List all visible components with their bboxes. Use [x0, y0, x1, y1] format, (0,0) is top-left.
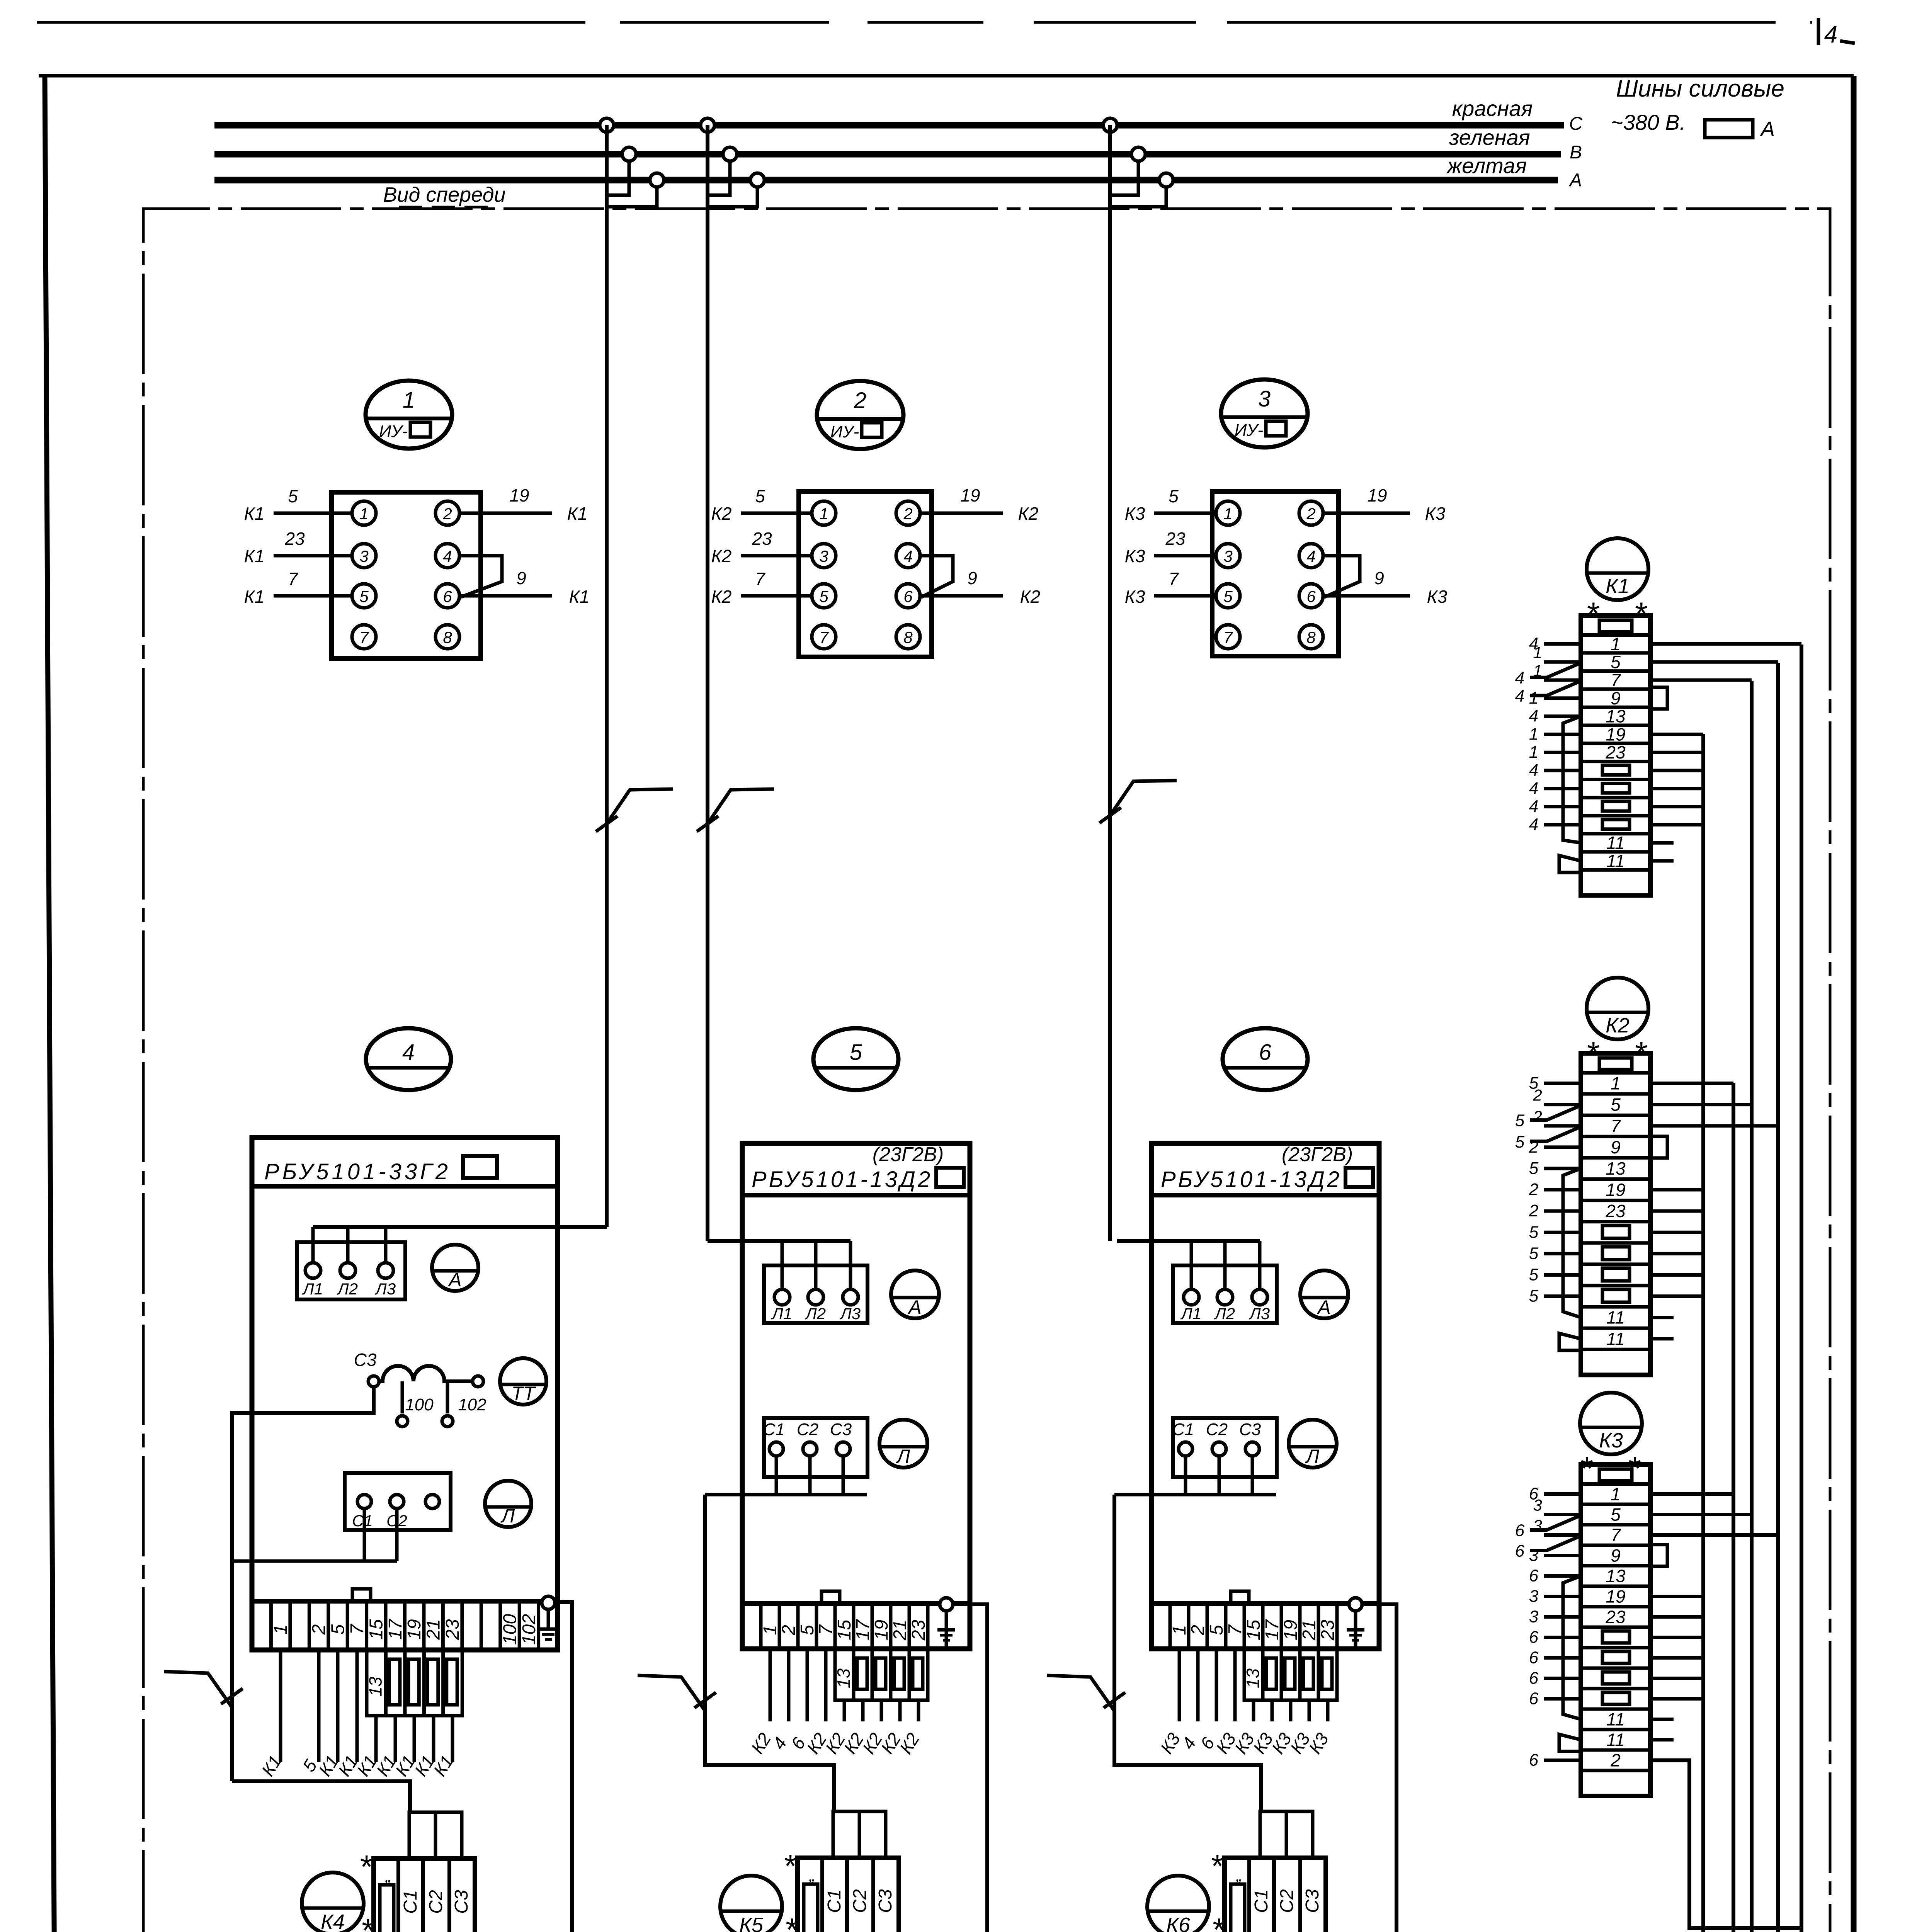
svg-text:9: 9	[1611, 1546, 1621, 1566]
svg-text:3: 3	[819, 547, 828, 565]
svg-text:7: 7	[819, 628, 829, 646]
svg-text:2: 2	[1529, 1180, 1538, 1199]
right wires of К2	[1650, 1082, 1733, 1085]
svg-text:100: 100	[405, 1395, 434, 1414]
svg-text:4: 4	[443, 547, 452, 565]
wire to K box area	[1215, 1649, 1218, 1721]
svg-text:Л3: Л3	[1249, 1304, 1270, 1323]
fuse row panel6	[1244, 1649, 1263, 1700]
fuse link	[1322, 1658, 1332, 1689]
svg-text:5: 5	[1223, 587, 1233, 605]
wire to K box area	[1326, 1700, 1330, 1721]
connection box К6 box	[1225, 1858, 1326, 1932]
second cable	[1530, 1537, 1579, 1551]
svg-text:К1: К1	[244, 503, 265, 524]
svg-text:5: 5	[755, 486, 765, 506]
pin 8	[896, 625, 920, 649]
svg-text:С3: С3	[830, 1420, 852, 1439]
svg-text:К2: К2	[1606, 1014, 1630, 1037]
svg-text:21: 21	[424, 1619, 444, 1640]
vertical bus V1	[1701, 734, 1705, 1932]
svg-text:4: 4	[1306, 547, 1315, 565]
svg-text:2: 2	[1610, 1750, 1621, 1770]
drop wire column 3	[1108, 125, 1112, 1241]
svg-text:13: 13	[1606, 706, 1626, 726]
wire to K4 area	[336, 1650, 340, 1762]
svg-text:6: 6	[1259, 1040, 1272, 1065]
wire to K box area	[769, 1649, 772, 1721]
relay terminal block К3 circle	[1580, 1393, 1642, 1454]
svg-text:7: 7	[1169, 569, 1179, 589]
ammeter A panel5	[891, 1270, 939, 1318]
svg-text:5: 5	[1611, 1505, 1621, 1525]
second cable	[1530, 1516, 1579, 1530]
svg-text:23: 23	[442, 1619, 463, 1640]
panel header symbol	[1345, 1168, 1373, 1187]
svg-text:4: 4	[1824, 21, 1837, 48]
connection box К5 top tabs	[833, 1811, 859, 1858]
svg-text:9: 9	[1374, 568, 1384, 588]
svg-text:9: 9	[516, 568, 526, 588]
svg-text:7: 7	[359, 628, 369, 646]
svg-text:17: 17	[385, 1618, 406, 1640]
svg-text:К3: К3	[1599, 1429, 1623, 1452]
pin 7	[352, 625, 376, 649]
ammeter A	[432, 1245, 478, 1291]
svg-text:С1: С1	[1172, 1420, 1194, 1439]
svg-text:2: 2	[442, 505, 452, 523]
svg-text:ИУ-: ИУ-	[1235, 421, 1263, 440]
svg-text:4: 4	[1529, 797, 1538, 816]
vertical bus V5	[1800, 645, 1803, 1932]
terminal C1	[1179, 1442, 1192, 1456]
svg-text:23: 23	[1605, 742, 1626, 762]
svg-text:С2: С2	[1277, 1889, 1297, 1913]
svg-text:21: 21	[1299, 1620, 1320, 1641]
lamp L panel4	[485, 1481, 531, 1527]
svg-text:1: 1	[1533, 643, 1542, 662]
svg-text:23: 23	[1165, 529, 1186, 549]
svg-text:ИУ-: ИУ-	[830, 422, 859, 441]
svg-text:А: А	[1760, 117, 1775, 141]
power bus C (krasnaya)	[214, 122, 1564, 129]
svg-text:5: 5	[1169, 486, 1179, 506]
wire to K box area	[1308, 1700, 1311, 1721]
wires right of control unit 2	[920, 512, 1003, 515]
svg-text:4: 4	[903, 547, 912, 565]
svg-text:С3: С3	[1239, 1420, 1261, 1439]
svg-text:7: 7	[347, 1623, 367, 1634]
svg-text:С3: С3	[1302, 1889, 1323, 1913]
svg-text:23: 23	[752, 529, 772, 549]
wire to K box area	[843, 1700, 846, 1721]
svg-text:3: 3	[1258, 386, 1271, 412]
right wires of К1	[1650, 642, 1801, 646]
power bus A (zheltaya)	[214, 177, 1558, 184]
wire to K box area	[861, 1700, 865, 1721]
terminal C3	[1245, 1442, 1259, 1456]
pin 2	[896, 501, 920, 525]
svg-text:13: 13	[833, 1668, 854, 1689]
vertical bus V3	[1750, 681, 1754, 1932]
pin 2	[1299, 501, 1323, 525]
svg-text:15: 15	[1243, 1620, 1264, 1641]
svg-text:5: 5	[797, 1625, 818, 1635]
wire to K box area	[1271, 1700, 1274, 1721]
pin 1	[352, 501, 376, 525]
svg-text:6: 6	[1529, 1566, 1539, 1585]
svg-text:13: 13	[1606, 1158, 1626, 1179]
svg-text:К1: К1	[244, 546, 265, 566]
drop wire column 1	[605, 125, 609, 1227]
svg-text:2: 2	[1529, 1201, 1538, 1220]
phase drop to L terminal	[849, 1241, 852, 1289]
svg-text:С1: С1	[1251, 1889, 1272, 1913]
wire C join	[1114, 1493, 1276, 1497]
svg-text:8: 8	[1306, 628, 1316, 646]
fuse link in box	[380, 1885, 394, 1932]
svg-text:7: 7	[755, 569, 765, 589]
terminal C3	[836, 1442, 850, 1456]
svg-text:5: 5	[328, 1624, 348, 1634]
fuse link	[1602, 765, 1630, 775]
svg-text:2: 2	[309, 1624, 329, 1635]
wire to K4 area	[413, 1716, 416, 1762]
svg-text:зеленая: зеленая	[1449, 125, 1530, 150]
IU box symbol	[1266, 421, 1286, 436]
pin 5	[812, 584, 836, 608]
svg-text:6: 6	[1529, 1628, 1539, 1647]
fuse link	[913, 1658, 923, 1689]
svg-text:4: 4	[1529, 779, 1538, 798]
svg-text:6: 6	[1529, 1689, 1539, 1708]
svg-text:5: 5	[1529, 1223, 1539, 1242]
starter panel RBU5101-13D2 #6	[1152, 1143, 1379, 1649]
svg-text:4: 4	[1529, 815, 1538, 834]
wire to K box area	[806, 1649, 809, 1721]
svg-text:1: 1	[760, 1625, 781, 1635]
wire to K4 area	[374, 1716, 378, 1762]
svg-text:В: В	[1570, 142, 1582, 163]
svg-text:4: 4	[1529, 761, 1538, 780]
wire to K box area	[917, 1700, 920, 1721]
fuse link	[894, 1658, 904, 1689]
pin 8	[1299, 625, 1323, 649]
phase drop to L terminal	[814, 1241, 818, 1289]
fuse link	[1602, 1672, 1630, 1684]
left bracket of К3	[1563, 1576, 1581, 1719]
bus designation symbol	[1705, 120, 1753, 138]
svg-text:4: 4	[402, 1040, 415, 1065]
CT tap 102	[446, 1381, 449, 1413]
wire C join	[705, 1493, 867, 1497]
svg-text:7: 7	[1223, 628, 1233, 646]
svg-text:7: 7	[1611, 670, 1621, 690]
strip top tab	[822, 1591, 840, 1604]
fuse link	[857, 1658, 867, 1689]
left bracket of К2	[1563, 1168, 1581, 1318]
scan artifact broken line top	[37, 21, 1812, 24]
svg-text:С1: С1	[763, 1420, 785, 1439]
svg-text:13: 13	[1243, 1668, 1263, 1689]
svg-text:К4: К4	[321, 1910, 345, 1932]
break leader	[638, 1675, 705, 1711]
svg-text:Л1: Л1	[771, 1304, 792, 1323]
break leader	[607, 789, 673, 824]
svg-text:С3: С3	[451, 1890, 472, 1914]
oval designator 6	[1223, 1028, 1308, 1090]
starter panel RBU5101-33G2	[252, 1138, 558, 1650]
pin 6	[896, 584, 920, 608]
svg-text:7: 7	[1611, 1116, 1621, 1136]
ground wire to neutral bus	[955, 1604, 987, 1932]
fuse link	[408, 1659, 419, 1705]
svg-text:6: 6	[1529, 1669, 1539, 1688]
svg-text:~380 В.: ~380 В.	[1611, 110, 1686, 134]
fuse link	[1602, 1631, 1630, 1643]
phase drop to L terminal	[1258, 1241, 1262, 1289]
svg-text:2: 2	[1529, 1138, 1538, 1156]
control unit 1 terminal box	[332, 492, 481, 658]
pin 6	[1299, 584, 1323, 608]
pin 1	[1216, 501, 1240, 525]
svg-text:Л: Л	[500, 1505, 515, 1527]
svg-text:19: 19	[509, 485, 529, 505]
right wires of К3	[1650, 1492, 1733, 1496]
ground wire to neutral bus	[557, 1602, 572, 1932]
svg-text:11: 11	[1606, 1709, 1625, 1730]
svg-text:(23Г2В): (23Г2В)	[1282, 1143, 1353, 1166]
wire to K4 left tab	[232, 1781, 410, 1813]
fuse link in box	[1231, 1884, 1245, 1932]
svg-text:К1: К1	[244, 587, 265, 607]
phase drop to L terminal	[781, 1241, 784, 1289]
svg-text:15: 15	[366, 1619, 386, 1640]
terminal strip panel4	[252, 1601, 558, 1650]
wire to K4 area	[394, 1716, 397, 1762]
svg-text:К3: К3	[1125, 587, 1145, 607]
pin 4	[1299, 544, 1323, 568]
svg-text:102: 102	[519, 1614, 539, 1645]
control unit 3 oval designator	[1221, 379, 1308, 447]
svg-text:2: 2	[1188, 1625, 1208, 1636]
fuse link	[389, 1659, 400, 1705]
svg-text:К5: К5	[739, 1913, 764, 1932]
svg-text:3: 3	[1223, 547, 1232, 565]
break leader	[708, 789, 774, 824]
terminal C	[390, 1495, 404, 1509]
wire to K box area	[1196, 1649, 1200, 1721]
control unit 3 terminal box	[1212, 492, 1339, 656]
lamp L panel6	[1289, 1420, 1337, 1468]
svg-text:2: 2	[903, 505, 912, 523]
connection box K4 box	[374, 1859, 475, 1932]
jumper pin4 to pin6	[920, 556, 953, 597]
jumper pin4 to pin6	[1323, 556, 1360, 597]
C1 C2 C3 box	[1173, 1418, 1277, 1477]
svg-text:5: 5	[850, 1040, 862, 1065]
wire to K box area	[824, 1649, 828, 1721]
svg-text:*: *	[783, 1848, 796, 1884]
IU box symbol	[410, 422, 430, 437]
cell 9 tab	[1650, 1136, 1667, 1158]
fuse link	[427, 1659, 438, 1705]
svg-text:Л2: Л2	[805, 1304, 826, 1323]
terminal L2	[1217, 1289, 1233, 1305]
svg-text:3: 3	[1533, 1496, 1542, 1514]
wire to K box area	[880, 1700, 883, 1721]
svg-text:4: 4	[1515, 668, 1524, 687]
L1 L2 L3 terminal box	[764, 1265, 867, 1323]
terminal L1	[774, 1289, 790, 1305]
panel header symbol	[463, 1156, 497, 1178]
CT wire to left	[232, 1388, 374, 1781]
svg-text:желтая: желтая	[1446, 153, 1527, 178]
svg-text:21: 21	[890, 1620, 910, 1641]
svg-text:5: 5	[1611, 1095, 1621, 1115]
svg-text:1: 1	[403, 388, 415, 413]
drop wire column 2	[706, 125, 709, 1241]
svg-text:С2: С2	[1206, 1420, 1228, 1439]
svg-text:5: 5	[1529, 1244, 1539, 1263]
svg-text:А: А	[907, 1296, 921, 1318]
pin 1	[812, 501, 836, 525]
wire break slash	[1104, 1692, 1125, 1708]
pin 3	[352, 544, 376, 568]
terminal L1	[305, 1263, 321, 1278]
svg-text:С3: С3	[875, 1889, 896, 1913]
second cable	[1530, 1106, 1579, 1120]
wire to K box area	[1289, 1700, 1293, 1721]
pin 8	[435, 625, 459, 649]
svg-text:2: 2	[854, 388, 866, 413]
cell 9 tab	[1650, 687, 1667, 709]
svg-text:С1: С1	[352, 1512, 373, 1530]
fuse link	[1602, 1651, 1630, 1663]
IU box symbol	[862, 423, 882, 437]
terminal C1	[769, 1442, 783, 1456]
ground terminal panel 6	[1349, 1598, 1362, 1611]
svg-text:„: „	[809, 1866, 815, 1885]
svg-text:С3: С3	[354, 1350, 377, 1370]
relay terminal block К1 circle	[1587, 538, 1648, 600]
svg-text:А: А	[1317, 1296, 1330, 1318]
svg-text:Л3: Л3	[374, 1280, 396, 1298]
strip top tab	[1231, 1591, 1249, 1604]
wire to K box area	[1233, 1649, 1237, 1721]
svg-text:3: 3	[1529, 1587, 1539, 1606]
svg-text:13: 13	[366, 1677, 386, 1697]
svg-text:19: 19	[960, 485, 980, 505]
wire C join	[232, 1560, 397, 1563]
svg-text:23: 23	[1318, 1620, 1338, 1641]
fuse link	[1602, 1268, 1630, 1281]
svg-text:С2: С2	[426, 1890, 446, 1913]
left wires of К1	[1544, 642, 1581, 646]
svg-text:7: 7	[816, 1624, 836, 1635]
svg-text:19: 19	[1367, 485, 1387, 505]
ammeter A panel6	[1300, 1270, 1348, 1318]
svg-text:К3: К3	[1125, 546, 1145, 566]
sheet right border	[1851, 76, 1857, 1932]
svg-text:К1: К1	[567, 503, 588, 524]
svg-text:19: 19	[404, 1619, 425, 1639]
terminal L3	[843, 1289, 858, 1305]
svg-text:6: 6	[1515, 1521, 1525, 1540]
pin 4	[896, 544, 920, 568]
feed wire into panel 5	[708, 1239, 850, 1243]
svg-text:9: 9	[967, 568, 977, 588]
CT terminal C3	[368, 1376, 379, 1387]
svg-text:5: 5	[1206, 1625, 1227, 1635]
svg-text:11: 11	[1606, 1329, 1625, 1349]
pin 7	[1216, 625, 1240, 649]
second cable	[1530, 1128, 1579, 1141]
svg-text:*: *	[1211, 1912, 1225, 1932]
break leader	[1047, 1675, 1114, 1711]
feed wire into panel 4	[313, 1225, 607, 1229]
svg-text:5: 5	[1529, 1159, 1539, 1178]
svg-text:К3: К3	[1425, 503, 1446, 524]
svg-text:5: 5	[1515, 1111, 1525, 1130]
svg-text:1: 1	[359, 505, 368, 523]
fuse link	[876, 1658, 886, 1689]
svg-text:23: 23	[1605, 1201, 1626, 1221]
svg-text:5: 5	[819, 587, 828, 605]
svg-text:К3: К3	[1427, 587, 1448, 607]
strip top tab	[352, 1589, 371, 1601]
svg-text:7: 7	[1611, 1525, 1621, 1545]
svg-text:19: 19	[1606, 1587, 1625, 1607]
svg-text:11: 11	[1606, 1308, 1625, 1328]
wire to K box area	[1178, 1649, 1181, 1721]
svg-text:1: 1	[1529, 724, 1538, 743]
svg-text:К2: К2	[711, 587, 732, 607]
svg-text:4: 4	[1515, 687, 1524, 706]
lamp L panel5	[879, 1420, 927, 1468]
wire to K4 area	[317, 1650, 321, 1762]
svg-text:ИУ-: ИУ-	[379, 422, 408, 441]
connection box K4 circle	[302, 1872, 364, 1932]
connection box К6 top tabs	[1260, 1811, 1286, 1858]
svg-text:С2: С2	[797, 1420, 818, 1439]
feed wire to K box column 6	[1114, 1495, 1261, 1812]
header jumper	[1599, 1469, 1632, 1481]
svg-text:5: 5	[1515, 1133, 1525, 1151]
svg-text:19: 19	[1281, 1620, 1301, 1640]
svg-text:красная: красная	[1452, 96, 1533, 121]
svg-text:(23Г2В): (23Г2В)	[873, 1143, 944, 1166]
svg-text:Л3: Л3	[839, 1304, 861, 1323]
svg-text:Л2: Л2	[1214, 1304, 1235, 1323]
svg-text:Л: Л	[1305, 1446, 1320, 1467]
svg-text:С: С	[1569, 114, 1583, 134]
power bus B (zelenaya)	[214, 151, 1561, 158]
control unit 2 terminal box	[799, 492, 932, 657]
terminal C2	[1212, 1442, 1226, 1456]
panel header symbol	[936, 1168, 964, 1187]
sheet left border	[45, 76, 58, 1932]
starter panel RBU5101-13D2 #5	[742, 1143, 970, 1649]
wires C down panel 5	[775, 1456, 778, 1495]
svg-text:Л2: Л2	[337, 1280, 358, 1298]
svg-text:К3: К3	[1125, 503, 1145, 524]
fuse link	[1602, 801, 1630, 811]
wires right of control unit 3	[1323, 512, 1410, 515]
L1 L2 L3 terminal box	[297, 1242, 405, 1299]
svg-text:6: 6	[443, 587, 452, 605]
svg-text:1: 1	[1529, 689, 1538, 707]
